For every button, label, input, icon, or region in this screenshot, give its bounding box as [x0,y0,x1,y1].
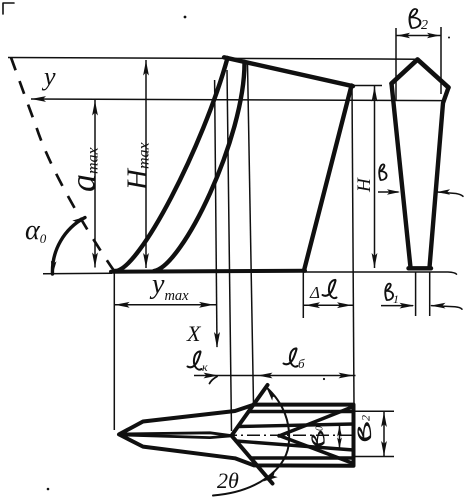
svg-text:Н: Н [354,177,375,193]
v2 plan arrow down [381,441,387,456]
dimension line v2 top [396,35,441,37]
svg-text:у: у [41,62,56,91]
dimension line v1 right tail [432,306,463,310]
ground baseline thin left [43,272,112,275]
v arrow right-pointing [387,189,400,194]
delta-l arrow right [337,302,352,308]
extension line blade heel [302,272,304,318]
plan slot upper line [239,424,354,427]
dashed initial position line [11,58,114,271]
svg-text:2: 2 [359,415,373,421]
scan speck 3 [323,378,325,380]
label v [379,164,386,180]
v1 arrow right-pointing [400,303,415,309]
dimension line v0 plan [339,425,341,450]
y axis arrowhead [31,96,46,102]
inner profile curve [154,62,245,271]
v2 top arrow left [397,33,410,38]
v dimension right arrow line [438,192,464,196]
plan outer slot lower line [251,456,354,459]
plan outline [119,405,354,466]
dimension line delta-l [304,304,354,306]
svg-text:Δ: Δ [309,283,320,302]
v2 top arrow right [427,33,440,38]
lb arrow right-pointing [339,373,354,379]
plan mid ridge top [119,433,232,436]
v1 arrow left-pointing [431,303,446,309]
lk arrow right-pointing [204,373,219,379]
2theta arrow upper [267,388,277,401]
label delta-l script l [323,280,337,298]
y axis line [31,99,443,101]
a_max arrow down [92,253,98,268]
svg-text:аmах: аmах [63,147,103,192]
blade back edge [304,86,352,271]
scan speck 4 [47,488,50,491]
dimension line v1 left tail [381,305,413,307]
svg-text:б: б [298,356,305,371]
outer profile curve [115,58,228,271]
svg-text:1: 1 [393,292,399,306]
tooth shank right edge [430,88,449,268]
dimension line H [374,86,376,268]
svg-text:2θ: 2θ [217,468,239,493]
plan wedge upper line [232,385,268,436]
dimension line v2 plan [383,411,385,456]
extension line inner curve top [248,63,254,404]
svg-text:Нmах: Нmах [122,142,154,191]
a_max arrow up [92,101,98,116]
plan notch bevel lower [279,436,352,463]
plan mid ridge bottom [119,435,232,438]
plan outer slot upper line [249,410,354,413]
extension line from tooth tip [227,70,232,431]
extension line blade corner right [352,85,383,87]
X axis arrowhead [214,332,220,348]
plan notch bevel upper [279,407,352,436]
v dimension left arrow line [378,191,399,193]
ground baseline thick [111,269,305,274]
label lk script l [188,351,202,369]
svg-text:2: 2 [421,18,428,33]
lk-lb shared arrow left-pointing [258,373,273,379]
H_max arrow up [143,61,149,76]
tooth shank left edge [392,84,411,268]
scan speck 1 [184,16,187,19]
plan slot lower line [236,441,354,450]
tooth cap right face [418,60,449,88]
angle arc alpha0 [52,218,85,275]
extension lines v2 top [395,28,397,101]
label v1 [385,284,393,300]
scan speck 2 [448,37,450,39]
v0 plan arrow up [337,426,342,437]
extension line at curve start [113,272,115,430]
delta-l arrow left [305,302,320,308]
dimension line lk-lb [194,375,356,377]
blade top edge [224,57,353,86]
y_max arrow left [115,302,130,308]
H_max arrow down [143,253,149,268]
v0 plan arrow down [337,438,342,449]
label v0 plan [312,432,324,445]
svg-text:уmах: уmах [149,269,189,304]
label v2 plan [358,424,370,440]
lk arrow flare mark [210,377,218,384]
X axis line [215,80,217,347]
tooth cap left face [392,60,418,84]
alpha0 arc arrow bottom [51,261,57,275]
svg-text:к: к [202,360,208,374]
dimension line H_max [145,60,147,268]
label v2 top [410,9,421,28]
tooth bottom bar [409,266,432,270]
extension line blade corner to plan [352,86,354,404]
dimension line y_max [114,304,216,306]
v2 plan arrow up [381,412,387,427]
alpha0 arc arrow top [72,217,86,226]
y_max arrow right [199,302,214,308]
extension lines v2 plan [354,410,395,412]
angle arc 2theta [213,387,289,496]
dimension line a_max [94,100,96,268]
ground baseline thin right [304,272,457,274]
top horizontal reference line [8,58,416,60]
svg-text:α0: α0 [25,215,47,246]
H arrow up [372,87,378,102]
H arrow down [372,253,378,268]
svg-text:Х: Х [186,321,202,346]
plan centerline [224,434,352,436]
extension lines v1 [415,272,417,316]
svg-text:0: 0 [315,426,326,431]
corner mark top-left [3,3,14,14]
plan wedge lower line [232,436,273,484]
label lb script l [284,348,298,366]
2theta arrow lower [263,472,278,482]
v arrow left-pointing [437,189,450,194]
